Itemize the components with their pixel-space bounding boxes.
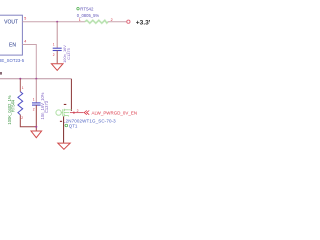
svg-text:RT542: RT542 — [80, 6, 94, 11]
svg-text:2: 2 — [33, 108, 35, 112]
wire RT542 to node — [108, 21, 127, 23]
capacitor C1375 — [53, 47, 62, 49]
ground under C1373 — [31, 131, 42, 138]
svg-text:VOUT: VOUT — [4, 19, 18, 25]
svg-text:1: 1 — [33, 98, 35, 102]
wire EN pin — [22, 45, 36, 79]
wire C1373 top — [35, 79, 37, 103]
svg-text:EN: EN — [9, 42, 16, 48]
wire EN net horizontal — [0, 78, 71, 80]
junction node on VOUT — [56, 21, 58, 23]
svg-text:QT1: QT1 — [69, 123, 78, 128]
svg-text:2: 2 — [53, 53, 55, 57]
svg-text:4: 4 — [24, 40, 26, 44]
regulator U1 box — [0, 15, 22, 55]
ground under QT1 — [58, 143, 70, 149]
resistor RT542 marker — [77, 8, 79, 10]
wire C1373 bottom — [35, 105, 37, 131]
resistor RT542 body — [85, 20, 108, 23]
off-page arrow — [84, 111, 89, 115]
pin number 1 of QT1 rotated — [64, 104, 67, 105]
svg-text:C1373: C1373 — [44, 100, 49, 113]
svg-text:5: 5 — [24, 17, 26, 21]
gate wire and dot — [73, 112, 75, 114]
wire C1375 to ground — [56, 51, 58, 64]
svg-text:ALW_PWRGD_0V_EN: ALW_PWRGD_0V_EN — [92, 110, 138, 115]
svg-text:C1375: C1375 — [66, 48, 71, 59]
left edge text fragment — [0, 72, 2, 75]
svg-text:1: 1 — [79, 18, 81, 22]
svg-text:+3.3V: +3.3V — [136, 19, 150, 26]
junction on EN net at RT544 — [19, 78, 21, 80]
wire RT544 bottom to junction — [20, 115, 36, 127]
resistor RT544 body — [18, 92, 23, 115]
svg-text:1: 1 — [53, 43, 55, 47]
wire VOUT net — [22, 21, 85, 23]
wire EN net to drain — [70, 79, 72, 111]
svg-text:8E_SOT23-5: 8E_SOT23-5 — [0, 58, 25, 63]
wire C1375 top — [56, 22, 58, 48]
off-page node circle — [127, 20, 130, 23]
svg-text:2: 2 — [77, 109, 79, 113]
transistor QT1 symbol — [56, 109, 72, 117]
QT1 marker — [65, 124, 68, 127]
junction on EN net at C1373 — [35, 78, 37, 80]
pin number rotated source — [60, 121, 62, 122]
svg-text:1: 1 — [22, 86, 24, 90]
junction at ground net — [35, 126, 37, 128]
svg-text:2: 2 — [21, 116, 23, 120]
wire source to ground — [63, 116, 65, 142]
wire RT544 top — [19, 79, 21, 92]
ground under C1375 — [51, 64, 63, 71]
capacitor C1373 — [32, 102, 41, 104]
svg-text:RT544: RT544 — [11, 99, 16, 112]
